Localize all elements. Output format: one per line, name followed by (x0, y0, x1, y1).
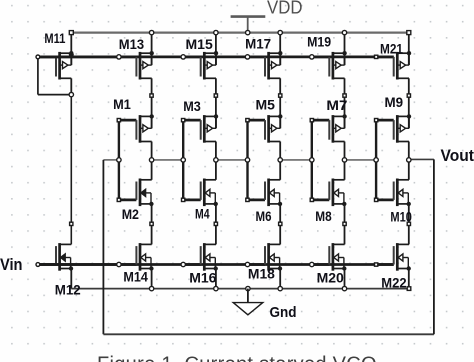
wire stage2 inverter PMOS source to output node (215, 142, 217, 160)
transistor M1 (PMOS) (119, 114, 154, 142)
svg-text:M3: M3 (183, 98, 201, 114)
svg-text:M18: M18 (248, 265, 275, 281)
transistor M9 (PMOS) (376, 114, 411, 142)
wire stage5 bottom NMOS source to ground rail (408, 269, 410, 289)
wire stage4 inverter PMOS source to output node (344, 142, 346, 160)
wire stage1 VDD rail to top PMOS (151, 33, 153, 66)
node gate terminal squares (inverter inputs) (117, 119, 378, 202)
transistor M6 (NMOS) (248, 179, 283, 207)
node M11 drain-gate junction (69, 52, 74, 57)
svg-text:M14: M14 (123, 269, 148, 285)
wire stage3 output to stage4 input (280, 159, 312, 161)
wire Vout (409, 158, 434, 160)
transistor M14 (NMOS) (38, 243, 154, 271)
svg-text:M22: M22 (381, 275, 406, 291)
transistor M3 (PMOS) (183, 114, 218, 142)
node NMOS bias line junctions (36, 262, 378, 266)
wire stage3 inverter NMOS source to bottom NMOS (279, 204, 281, 245)
wire stage2 input column (182, 120, 184, 200)
svg-text:M11: M11 (44, 30, 65, 46)
wire stage5 VDD rail to top PMOS (408, 33, 410, 66)
wire stage1 output node to inverter NMOS drain (151, 160, 153, 180)
transistor M22 (NMOS) (376, 243, 411, 271)
wire stage2 output to stage3 input (216, 159, 248, 161)
transistor M18 (NMOS) (248, 243, 283, 271)
svg-text:M16: M16 (189, 270, 216, 286)
transistor M7 (PMOS) (312, 114, 347, 142)
transistor M2 (NMOS) (119, 179, 154, 207)
node PMOS bias line junctions (36, 55, 378, 59)
svg-text:M13: M13 (119, 36, 144, 52)
transistor M4 (NMOS) (183, 179, 218, 207)
node ground rail junctions (149, 286, 410, 290)
svg-text:M1: M1 (113, 96, 131, 112)
wire stage4 output node to inverter NMOS drain (344, 160, 346, 180)
wire stage5 top PMOS source to inverter PMOS (408, 78, 410, 128)
svg-text:M2: M2 (122, 206, 139, 222)
transistor M8 (NMOS) (312, 179, 347, 207)
wire stage3 input column (246, 120, 248, 200)
svg-text:M10: M10 (390, 209, 412, 225)
wire stage4 inverter NMOS source to bottom NMOS (344, 204, 346, 245)
svg-text:M12: M12 (55, 282, 81, 298)
node bottom joint squares (70, 222, 411, 225)
wire stage1 input column (118, 120, 120, 200)
wire feedback right vertical (from Vout) (433, 159, 435, 334)
wire stage5 inverter NMOS source to bottom NMOS (408, 204, 410, 245)
wire stage2 VDD rail to top PMOS (215, 33, 217, 66)
wire stage1 inverter NMOS source to bottom NMOS (151, 204, 153, 245)
transistor M16 (NMOS) (183, 243, 218, 271)
svg-text:Vin: Vin (0, 255, 23, 274)
wire stage3 bottom NMOS source to ground rail (279, 269, 281, 289)
svg-text:VDD: VDD (267, 0, 303, 17)
wire stage1 output to stage2 input (152, 159, 184, 161)
svg-text:M20: M20 (317, 270, 344, 286)
wire stage5 inverter PMOS source to output node (408, 142, 410, 160)
wire M11 gate-source loop (38, 57, 71, 95)
wire M12 source to ground rail (70, 269, 72, 289)
transistor M13 (PMOS) (38, 51, 154, 80)
svg-text:M15: M15 (186, 36, 213, 52)
wire PMOS gate bias line (38, 56, 394, 59)
wire stage1 bottom NMOS source to ground rail (151, 269, 153, 289)
svg-text:Vout: Vout (441, 147, 474, 165)
wire stage2 output node to inverter NMOS drain (215, 160, 217, 180)
wire stage2 bottom NMOS source to ground rail (215, 269, 217, 289)
node M11 source junction (69, 92, 73, 96)
svg-text:M9: M9 (385, 94, 404, 110)
svg-text:M7: M7 (326, 97, 347, 113)
wire feedback to stage1 input (103, 159, 119, 161)
wire M11 drain to VDD rail (70, 33, 72, 66)
ground rail (71, 288, 409, 290)
wire feedback bottom (103, 333, 434, 335)
svg-text:M21: M21 (380, 41, 403, 57)
wire stage4 output to stage5 input (345, 159, 377, 161)
svg-text:Figure 1. Current starved VCO: Figure 1. Current starved VCO (97, 354, 377, 362)
wire stage4 bottom NMOS source to ground rail (344, 269, 346, 289)
wire stage3 VDD rail to top PMOS (279, 33, 281, 66)
wire stage1 top PMOS source to inverter PMOS (151, 78, 153, 128)
node top joint squares (150, 94, 411, 97)
transistor M21 (PMOS) (376, 51, 411, 80)
svg-text:M17: M17 (245, 36, 271, 52)
transistor M15 (PMOS) (183, 51, 218, 80)
transistor M11 (PMOS) (38, 51, 74, 80)
wire M11 source down (70, 78, 72, 94)
wire stage3 inverter PMOS source to output node (279, 142, 281, 160)
wire left column M11 to M12 (70, 95, 72, 245)
wire stage4 input column (311, 120, 313, 200)
wire stage4 top PMOS source to inverter PMOS (344, 78, 346, 128)
svg-text:M8: M8 (315, 208, 332, 224)
node VDD rail end squares (69, 31, 411, 35)
VDD power rail (71, 31, 409, 33)
svg-text:M5: M5 (256, 97, 276, 113)
svg-text:M4: M4 (195, 206, 210, 222)
wire stage2 top PMOS source to inverter PMOS (215, 78, 217, 128)
transistor M12 (NMOS) (38, 243, 73, 271)
wire stage1 inverter PMOS source to output node (151, 142, 153, 160)
transistor M19 (PMOS) (312, 51, 347, 80)
node mid-line junction circles (117, 158, 411, 162)
wire stage3 top PMOS source to inverter PMOS (279, 78, 281, 128)
wire stage4 VDD rail to top PMOS (344, 33, 346, 66)
svg-text:M19: M19 (307, 34, 331, 50)
transistor M5 (PMOS) (248, 114, 283, 142)
wire stage2 inverter NMOS source to bottom NMOS (215, 204, 217, 245)
wire feedback left vertical (102, 160, 104, 334)
wire stage3 output node to inverter NMOS drain (279, 160, 281, 180)
svg-text:Gnd: Gnd (270, 304, 297, 321)
svg-text:M6: M6 (256, 208, 272, 224)
transistor M20 (NMOS) (312, 243, 347, 271)
ground symbol (233, 289, 263, 315)
VDD symbol (231, 17, 266, 33)
wire stage5 output node to inverter NMOS drain (408, 160, 410, 180)
transistor M17 (PMOS) (248, 51, 283, 80)
wire stage5 input column (375, 120, 377, 200)
node VDD rail junctions (149, 30, 346, 34)
wire NMOS gate bias line (Vin) (38, 263, 394, 266)
transistor M10 (NMOS) (376, 179, 411, 207)
